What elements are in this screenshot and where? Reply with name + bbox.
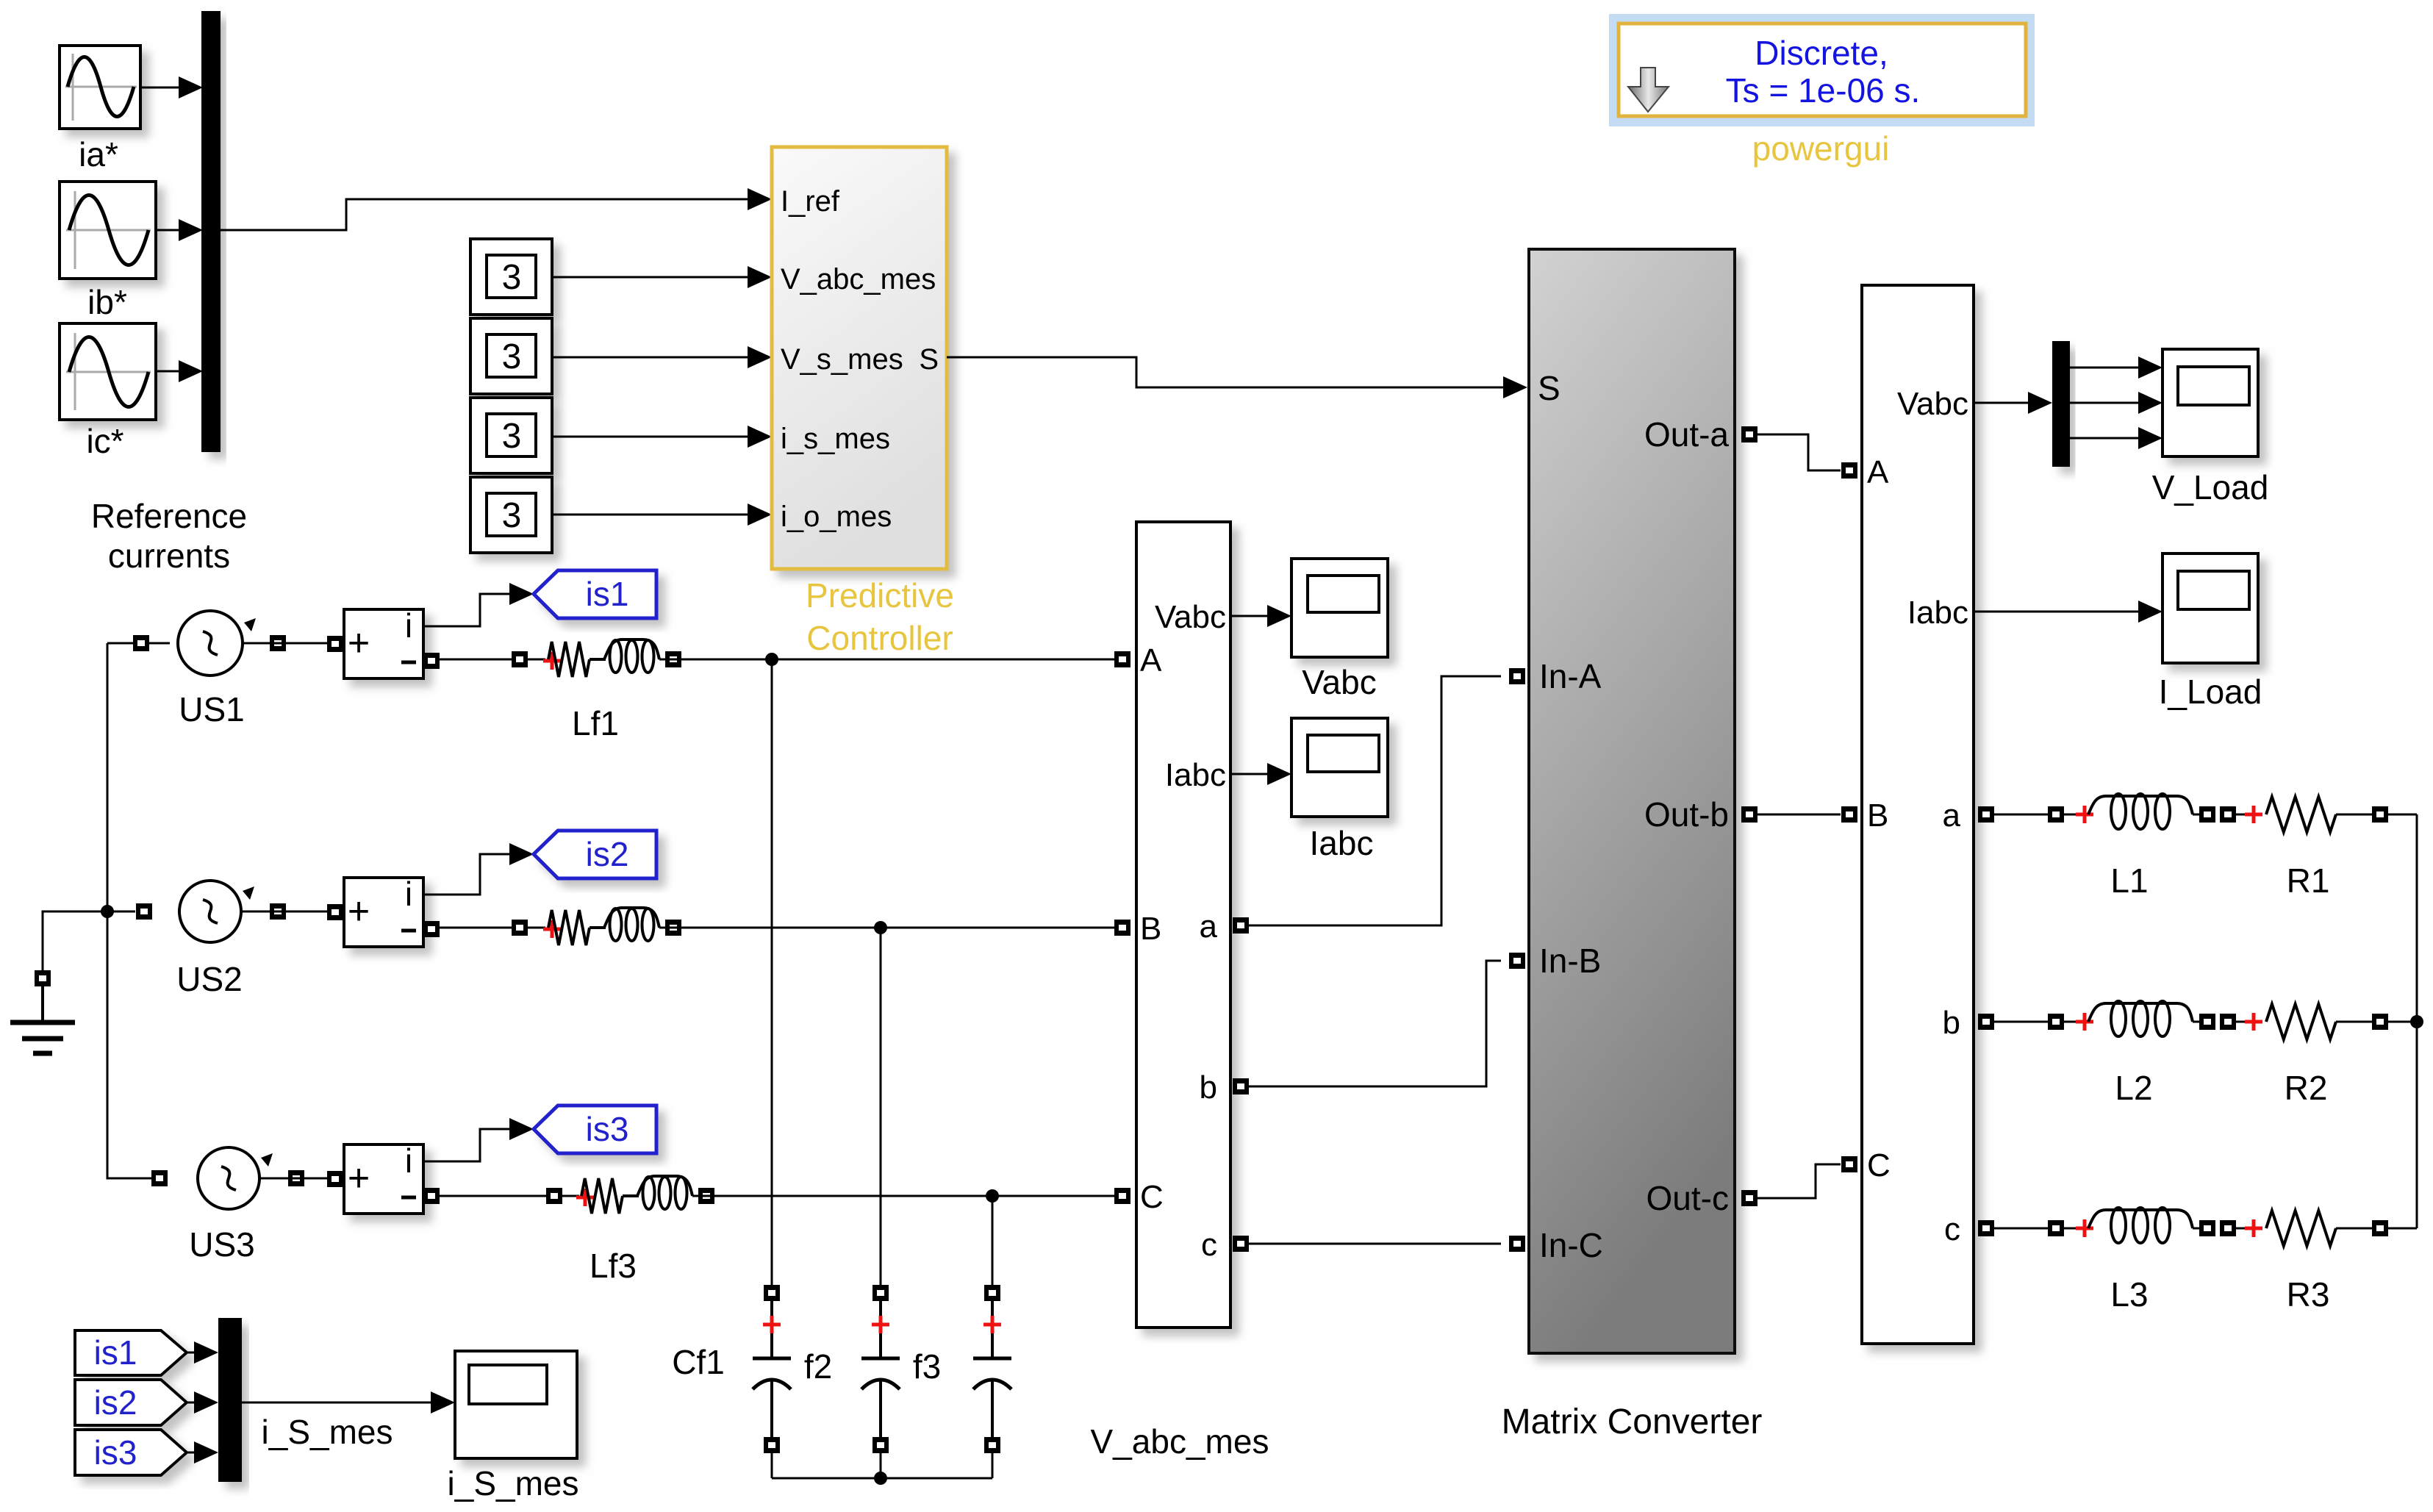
svg-text:V_s_mes: V_s_mes — [781, 343, 903, 376]
svg-text:In-C: In-C — [1539, 1226, 1603, 1264]
label US3 — [189, 1225, 254, 1264]
svg-text:f2: f2 — [804, 1347, 832, 1386]
label Cf1 — [672, 1343, 725, 1381]
mux Mux1 reference currents — [201, 11, 221, 452]
svg-text:3: 3 — [502, 337, 522, 376]
from tag is1 — [75, 1330, 187, 1375]
subsystem U1 Predictive Controller — [772, 147, 947, 569]
wire M1 a to In-A — [1249, 676, 1501, 925]
wire US2 to CM2 — [241, 911, 327, 913]
wire demux out 3 — [2070, 427, 2163, 449]
svg-text:b: b — [1200, 1069, 1217, 1106]
label ic* — [86, 422, 123, 460]
pin label M2 C — [1867, 1147, 1891, 1183]
three-phase V-I measurement M2 — [1841, 285, 1994, 1344]
svg-text:is2: is2 — [586, 835, 629, 873]
pin label M1 b — [1200, 1069, 1217, 1106]
label Predictive Controller — [806, 576, 954, 657]
wire Out-c to M2 C — [1757, 1164, 1841, 1198]
node bus junction US2 — [101, 905, 114, 918]
wire from-is1 to Mux2 — [187, 1341, 218, 1364]
inductor L2 and resistor R2 branch — [1994, 1001, 2417, 1039]
wire demux out 1 — [2070, 356, 2163, 379]
node f1 tap — [765, 653, 778, 666]
svg-text:Out-b: Out-b — [1644, 795, 1729, 834]
label f2 — [804, 1347, 832, 1386]
wire Mux1 to I_ref of Predictive Controller — [221, 188, 772, 230]
svg-text:I_ref: I_ref — [781, 185, 840, 218]
label i_S_mes — [448, 1464, 579, 1502]
label Reference currents — [91, 497, 247, 575]
label V_Load — [2152, 468, 2269, 506]
svg-text:Predictive: Predictive — [806, 576, 954, 615]
svg-text:Lf3: Lf3 — [590, 1247, 637, 1285]
svg-text:+: + — [348, 1157, 370, 1200]
svg-text:Cf1: Cf1 — [672, 1343, 725, 1381]
inductor L3 and resistor R3 branch — [1994, 1208, 2417, 1246]
constant K4 value 3 — [470, 477, 552, 553]
svg-text:Iabc: Iabc — [1165, 757, 1226, 793]
sine wave source ib* — [60, 182, 156, 279]
pin label M1 c — [1201, 1227, 1217, 1263]
AC source US2 — [136, 881, 286, 942]
wire M2 Iabc to scope I_Load — [1974, 601, 2163, 623]
label I_Load — [2159, 673, 2262, 711]
svg-text:In-B: In-B — [1539, 942, 1601, 980]
node load neutral — [2410, 1015, 2423, 1028]
pin label S output — [919, 343, 939, 376]
svg-text:Lf1: Lf1 — [572, 704, 619, 742]
label wire i_S_mes — [262, 1413, 393, 1451]
svg-text:S: S — [919, 343, 939, 376]
subsystem Matrix Converter — [1509, 249, 1757, 1353]
wire from-is3 to Mux2 — [187, 1441, 218, 1463]
label ia* — [79, 135, 118, 173]
wire Mux2 to scope i_S_mes — [242, 1391, 455, 1414]
svg-text:R2: R2 — [2285, 1069, 2328, 1107]
label Lf1 — [572, 704, 619, 742]
constant K2 value 3 — [470, 318, 552, 394]
wire K4 to i_o_mes — [552, 504, 772, 526]
pin label MC In-C — [1539, 1226, 1603, 1264]
label Ts — [1726, 71, 1921, 110]
wire M1 c to In-C — [1249, 1243, 1501, 1245]
wire Out-a to M2 A — [1757, 434, 1841, 470]
svg-text:3: 3 — [502, 417, 522, 456]
svg-text:is1: is1 — [586, 575, 629, 613]
label R1 — [2287, 861, 2330, 900]
scope V_Load — [2163, 349, 2258, 456]
current measurement CM3 — [327, 1142, 440, 1214]
pin label M1 Vabc — [1155, 599, 1226, 635]
svg-text:Vabc: Vabc — [1155, 599, 1226, 635]
pin label M1 Iabc — [1165, 757, 1226, 793]
pin label M2 Iabc — [1907, 595, 1968, 631]
current measurement CM2 — [327, 875, 440, 947]
label R3 — [2287, 1275, 2330, 1314]
svg-text:V_Load: V_Load — [2152, 468, 2269, 506]
svg-text:3: 3 — [502, 496, 522, 535]
svg-text:Out-a: Out-a — [1644, 415, 1729, 454]
svg-text:US2: US2 — [176, 960, 242, 998]
constant K1 value 3 — [470, 239, 552, 315]
label L2 — [2115, 1069, 2152, 1107]
goto tag is2 — [534, 831, 656, 878]
capacitor Cf3 — [973, 1285, 1011, 1478]
pin label M2 a — [1943, 798, 1961, 834]
pin label MC Out-a — [1644, 415, 1729, 454]
wire CM1 i to Goto is1 — [423, 583, 534, 626]
svg-text:Out-c: Out-c — [1647, 1179, 1729, 1217]
label Discrete — [1755, 34, 1888, 72]
svg-text:Iabc: Iabc — [1907, 595, 1968, 631]
current measurement CM1 — [327, 606, 440, 678]
wire US1 input lead — [107, 642, 170, 645]
pin label M1 A — [1140, 642, 1162, 678]
node f2 tap — [874, 921, 887, 934]
wire capacitor neutral bus — [772, 1477, 992, 1480]
svg-text:R3: R3 — [2287, 1275, 2330, 1314]
wire M1 b to In-B — [1249, 961, 1501, 1086]
svg-text:is2: is2 — [94, 1383, 137, 1422]
wire Lf2 to measurement B — [659, 927, 1114, 929]
label Lf3 — [590, 1247, 637, 1285]
wire Out-b to M2 B — [1757, 814, 1841, 816]
label Vabc — [1302, 663, 1376, 701]
svg-text:V_abc_mes: V_abc_mes — [781, 263, 936, 295]
AC source US1 — [133, 611, 286, 676]
wire Lf1 to measurement A — [659, 659, 1114, 661]
scope I_Load — [2163, 553, 2258, 663]
wire load neutral bus — [2416, 814, 2418, 1228]
wire M1 Vabc to scope Vabc — [1230, 605, 1291, 627]
pin label M2 B — [1867, 798, 1888, 834]
svg-text:Controller: Controller — [806, 619, 953, 657]
node capacitor neutral — [874, 1472, 887, 1485]
label R2 — [2285, 1069, 2328, 1107]
svg-text:L3: L3 — [2110, 1275, 2148, 1314]
label Matrix Converter — [1502, 1402, 1763, 1441]
pin label MC S — [1538, 369, 1561, 407]
pin label M2 A — [1867, 454, 1889, 490]
svg-text:Vabc: Vabc — [1897, 386, 1968, 422]
pin label i_s_mes — [781, 423, 890, 455]
svg-text:i_S_mes: i_S_mes — [262, 1413, 393, 1451]
node f3 tap — [986, 1189, 999, 1203]
svg-text:Matrix Converter: Matrix Converter — [1502, 1402, 1763, 1441]
AC source US3 — [151, 1147, 304, 1209]
wire M1 Iabc to scope Iabc — [1230, 763, 1291, 785]
label powergui — [1752, 129, 1890, 168]
svg-text:+: + — [348, 622, 370, 664]
wire CM3 minus to Lf3 — [440, 1188, 579, 1204]
svg-text:C: C — [1867, 1147, 1891, 1183]
wire ic* to Mux1 — [156, 360, 203, 382]
pin label M2 Vabc — [1897, 386, 1968, 422]
label f3 — [913, 1347, 941, 1386]
pin label MC In-B — [1539, 942, 1601, 980]
svg-text:+: + — [348, 890, 370, 933]
goto tag is3 — [534, 1106, 656, 1153]
svg-text:V_abc_mes: V_abc_mes — [1091, 1422, 1269, 1461]
svg-text:ia*: ia* — [79, 135, 118, 173]
svg-text:i_o_mes: i_o_mes — [781, 501, 892, 533]
svg-text:b: b — [1943, 1005, 1960, 1041]
pin label MC Out-b — [1644, 795, 1729, 834]
svg-text:is3: is3 — [586, 1110, 629, 1148]
constant K3 value 3 — [470, 398, 552, 473]
wire f2 vertical — [880, 928, 882, 1285]
wire f3 vertical — [992, 1196, 994, 1285]
wire K1 to V_abc_mes — [552, 266, 772, 288]
wire S from controller to Matrix Converter — [947, 357, 1527, 398]
svg-text:i: i — [405, 1142, 412, 1180]
svg-text:i: i — [405, 606, 412, 645]
powergui block — [1609, 14, 2035, 126]
capacitor Cf2 — [861, 1285, 900, 1478]
pin label MC Out-c — [1647, 1179, 1729, 1217]
svg-text:A: A — [1867, 454, 1889, 490]
svg-text:a: a — [1943, 798, 1961, 834]
mux Mux2 — [218, 1318, 242, 1482]
goto tag is1 — [534, 570, 656, 618]
svg-text:currents: currents — [108, 537, 230, 575]
wire ib* to Mux1 — [156, 219, 203, 241]
from tag is2 — [75, 1380, 187, 1425]
wire bus to US2 — [107, 911, 135, 913]
wire Lf3 to measurement C — [692, 1195, 1114, 1197]
svg-text:f3: f3 — [913, 1347, 941, 1386]
svg-text:I_Load: I_Load — [2159, 673, 2262, 711]
label US2 — [176, 960, 242, 998]
pin label V_abc_mes — [781, 263, 936, 295]
pin label M1 B — [1140, 911, 1161, 947]
inductor L1 and resistor R1 branch — [1994, 794, 2417, 832]
wire demux out 2 — [2070, 392, 2163, 414]
svg-text:ic*: ic* — [86, 422, 123, 460]
svg-text:In-A: In-A — [1539, 657, 1602, 695]
wire f1 vertical — [771, 659, 773, 1285]
svg-text:US1: US1 — [179, 690, 244, 728]
series RLC branch Lf1 — [543, 639, 681, 677]
pin label I_ref — [781, 185, 840, 218]
wire K2 to V_s_mes — [552, 346, 772, 368]
from tag is3 — [75, 1430, 187, 1475]
wire CM2 i to Goto is2 — [423, 843, 534, 895]
svg-text:powergui: powergui — [1752, 129, 1890, 168]
pin label M1 C — [1140, 1179, 1164, 1215]
series RLC branch Lf3 — [576, 1176, 714, 1214]
svg-text:a: a — [1200, 909, 1218, 945]
svg-text:US3: US3 — [189, 1225, 254, 1264]
svg-text:c: c — [1201, 1227, 1217, 1263]
svg-text:C: C — [1140, 1179, 1164, 1215]
wire M2 Vabc to demux — [1974, 392, 2052, 414]
label Iabc — [1310, 824, 1374, 862]
demux D1 — [2052, 341, 2070, 467]
label US1 — [179, 690, 244, 728]
capacitor Cf1 — [753, 1285, 791, 1478]
wire bus to ground — [43, 911, 107, 971]
scope i_S_mes — [455, 1351, 577, 1458]
svg-text:L2: L2 — [2115, 1069, 2152, 1107]
svg-text:Ts = 1e-06 s.: Ts = 1e-06 s. — [1726, 71, 1921, 110]
svg-text:i_S_mes: i_S_mes — [448, 1464, 579, 1502]
label ib* — [87, 283, 127, 321]
wire from-is2 to Mux2 — [187, 1391, 218, 1414]
pin label i_o_mes — [781, 501, 892, 533]
wire US1 to CM1 — [243, 642, 327, 645]
wire ia* to Mux1 — [140, 76, 203, 98]
pin label M2 c — [1944, 1211, 1960, 1247]
svg-text:Discrete,: Discrete, — [1755, 34, 1888, 72]
svg-text:A: A — [1140, 642, 1162, 678]
svg-text:Reference: Reference — [91, 497, 247, 535]
pin label MC In-A — [1539, 657, 1602, 695]
svg-text:Vabc: Vabc — [1302, 663, 1376, 701]
svg-text:S: S — [1538, 369, 1561, 407]
pin label M2 b — [1943, 1005, 1960, 1041]
label L3 — [2110, 1275, 2148, 1314]
svg-text:B: B — [1867, 798, 1888, 834]
ground G1 — [10, 970, 75, 1053]
wire CM1 minus to Lf1 — [440, 651, 545, 667]
svg-text:Iabc: Iabc — [1310, 824, 1374, 862]
three-phase V-I measurement M1 — [1114, 522, 1249, 1328]
wire US3 to CM3 — [259, 1178, 327, 1180]
series RLC branch Lf2 — [543, 908, 681, 945]
svg-text:c: c — [1944, 1211, 1960, 1247]
wire CM3 i to Goto is3 — [423, 1118, 534, 1161]
pin label M1 a — [1200, 909, 1218, 945]
svg-text:3: 3 — [502, 258, 522, 297]
sine wave source ia* — [60, 46, 140, 129]
scope Vabc — [1291, 559, 1388, 657]
svg-text:B: B — [1140, 911, 1161, 947]
wire K3 to i_s_mes — [552, 426, 772, 448]
svg-text:i: i — [405, 875, 412, 913]
sine wave source ic* — [60, 323, 156, 420]
svg-text:R1: R1 — [2287, 861, 2330, 900]
pin label V_s_mes — [781, 343, 903, 376]
scope Iabc — [1291, 718, 1388, 817]
svg-text:i_s_mes: i_s_mes — [781, 423, 890, 455]
wire CM2 minus to Lf2 — [440, 920, 545, 936]
wire left source bus vertical — [107, 643, 151, 1178]
label L1 — [2110, 861, 2148, 900]
svg-text:is3: is3 — [94, 1433, 137, 1472]
svg-text:L1: L1 — [2110, 861, 2148, 900]
svg-text:ib*: ib* — [87, 283, 127, 321]
svg-text:is1: is1 — [94, 1333, 137, 1372]
label V_abc_mes — [1091, 1422, 1269, 1461]
